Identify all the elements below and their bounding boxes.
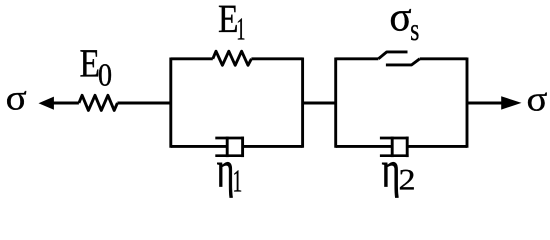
box1 top wire right of spring [251,57,302,60]
label E1 [218,0,239,41]
box1 left edge wire [169,58,172,148]
svg-text:E: E [80,41,101,86]
friction slider lower plate [386,59,420,65]
wire right arrow shaft [467,102,503,105]
svg-text:2: 2 [399,162,416,196]
svg-text:σ: σ [527,79,548,119]
dashpot eta1 piston plate [226,137,229,158]
box1 bottom wire right of dashpot [243,145,303,148]
dashpot eta2 cylinder top [380,137,409,140]
spring E1 [213,51,252,65]
wire spring E0 to box1 [117,102,170,105]
svg-text:s: s [410,13,419,48]
dashpot eta2 cylinder bottom [380,154,409,157]
wire left arrow shaft [52,102,79,105]
svg-text:0: 0 [98,56,112,92]
spring E0 [79,95,118,110]
label sigma-s [389,0,411,40]
svg-text:1: 1 [232,162,242,198]
svg-text:σ: σ [6,77,27,118]
box2 left edge wire [334,58,337,148]
label eta2 [382,140,401,198]
friction slider upper plate [378,52,407,59]
box2 top wire right of slider [420,57,467,60]
node sigma-right label [527,79,548,119]
wire between boxes [303,102,336,105]
dashpot eta1 cylinder top [215,137,244,140]
box2 bottom wire left of dashpot [336,145,393,148]
box2 bottom wire right of dashpot [407,145,467,148]
box2 right edge wire [466,58,469,148]
svg-text:E: E [218,0,239,41]
svg-text:η: η [217,140,235,198]
arrowhead left [39,97,54,110]
dashpot eta2 cylinder right wall [406,137,409,158]
label eta1 [217,140,235,198]
dashpot eta1 cylinder right wall [241,137,244,158]
box1 right edge wire [301,58,304,148]
box1 bottom wire left of dashpot [171,145,227,148]
box1 top wire left of spring [171,57,213,60]
arrowhead right [501,96,521,109]
dashpot eta2 piston plate [391,137,394,158]
box2 top wire left of slider [336,57,379,60]
node sigma-left label [6,77,27,118]
svg-text:1: 1 [236,11,245,47]
svg-text:η: η [382,140,401,198]
label E0 [80,41,101,86]
svg-text:σ: σ [389,0,411,40]
dashpot eta1 cylinder bottom [215,154,244,157]
